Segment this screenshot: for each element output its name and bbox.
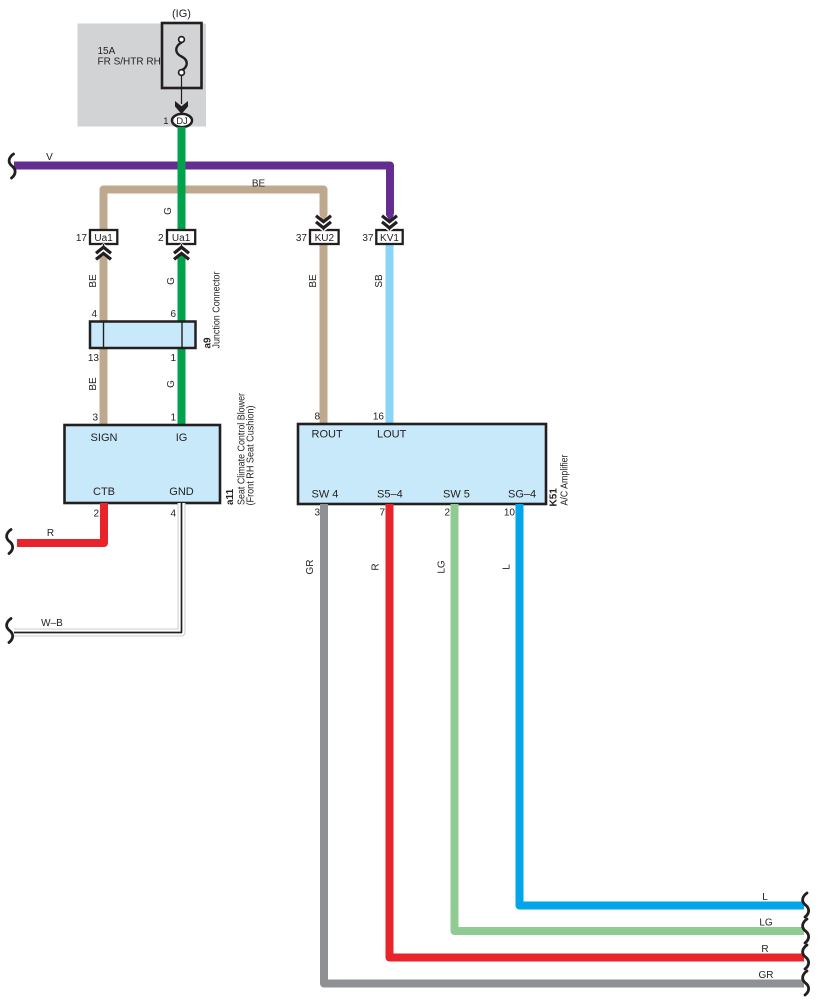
svg-text:SIGN: SIGN xyxy=(91,432,118,444)
svg-text:2: 2 xyxy=(444,508,450,519)
svg-text:16: 16 xyxy=(373,412,385,423)
svg-text:Ua1: Ua1 xyxy=(94,233,113,244)
svg-text:BE: BE xyxy=(252,179,266,190)
svg-text:(IG): (IG) xyxy=(172,8,191,20)
svg-text:KU2: KU2 xyxy=(315,233,335,244)
svg-text:V: V xyxy=(46,152,53,163)
svg-text:SW 4: SW 4 xyxy=(312,489,339,501)
svg-text:1: 1 xyxy=(170,353,176,364)
svg-text:a11: a11 xyxy=(225,488,236,505)
svg-text:3: 3 xyxy=(92,413,98,424)
svg-text:Junction Connector: Junction Connector xyxy=(212,271,223,349)
svg-text:SW 5: SW 5 xyxy=(443,489,470,501)
svg-text:DJ: DJ xyxy=(176,116,188,127)
svg-text:4: 4 xyxy=(170,509,176,520)
svg-text:R: R xyxy=(47,528,54,539)
svg-text:G: G xyxy=(163,207,174,215)
svg-text:15A: 15A xyxy=(98,46,116,57)
svg-text:K51: K51 xyxy=(549,488,560,507)
svg-text:W–B: W–B xyxy=(41,618,63,629)
svg-text:ROUT: ROUT xyxy=(312,429,343,441)
svg-text:37: 37 xyxy=(296,233,308,244)
svg-text:LG: LG xyxy=(759,918,773,929)
svg-text:GND: GND xyxy=(169,486,194,498)
svg-text:BE: BE xyxy=(88,274,99,288)
svg-text:1: 1 xyxy=(163,116,168,127)
svg-text:GR: GR xyxy=(759,970,774,981)
svg-text:6: 6 xyxy=(170,309,176,320)
svg-text:2: 2 xyxy=(158,233,164,244)
svg-text:SB: SB xyxy=(374,274,385,288)
svg-text:KV1: KV1 xyxy=(380,233,399,244)
svg-text:17: 17 xyxy=(76,233,88,244)
svg-text:R: R xyxy=(371,563,382,570)
svg-text:LOUT: LOUT xyxy=(377,429,407,441)
svg-text:BE: BE xyxy=(88,377,99,391)
svg-text:Ua1: Ua1 xyxy=(172,233,191,244)
svg-text:GR: GR xyxy=(305,560,316,575)
svg-text:L: L xyxy=(762,892,768,903)
svg-text:8: 8 xyxy=(314,412,320,423)
svg-text:S5–4: S5–4 xyxy=(377,489,403,501)
svg-text:G: G xyxy=(166,380,177,388)
svg-text:CTB: CTB xyxy=(93,486,115,498)
svg-text:3: 3 xyxy=(314,508,320,519)
svg-text:13: 13 xyxy=(88,353,100,364)
svg-text:R: R xyxy=(761,944,768,955)
svg-text:2: 2 xyxy=(93,509,99,520)
svg-text:10: 10 xyxy=(504,508,516,519)
svg-text:37: 37 xyxy=(362,233,374,244)
svg-text:LG: LG xyxy=(437,560,448,574)
svg-text:FR S/HTR RH: FR S/HTR RH xyxy=(98,57,161,68)
svg-text:1: 1 xyxy=(170,413,176,424)
svg-text:(Front RH Seat Cushion): (Front RH Seat Cushion) xyxy=(246,406,257,506)
svg-text:4: 4 xyxy=(91,309,97,320)
svg-text:BE: BE xyxy=(308,274,319,288)
svg-text:G: G xyxy=(166,277,177,285)
svg-text:SG–4: SG–4 xyxy=(508,489,536,501)
svg-text:L: L xyxy=(502,564,513,570)
svg-text:7: 7 xyxy=(379,508,385,519)
svg-text:A/C Amplifier: A/C Amplifier xyxy=(560,454,571,506)
svg-text:IG: IG xyxy=(176,432,188,444)
